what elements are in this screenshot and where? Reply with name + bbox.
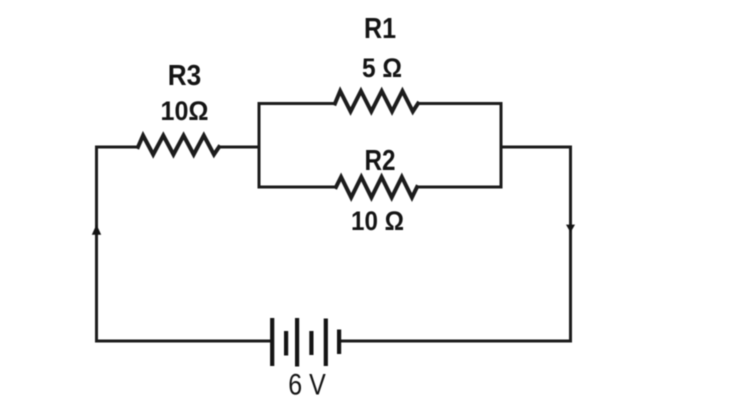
svg-text:R3: R3 (168, 60, 202, 92)
node A left side of parallel box (258, 104, 261, 188)
value label 5 Ω (362, 53, 402, 83)
battery plate short 3 (337, 330, 341, 355)
svg-text:10 Ω: 10 Ω (351, 206, 404, 236)
reference label R3 (168, 60, 202, 92)
battery BT1 (6 V, three cells) (272, 318, 339, 367)
wire top-left horizontal (97, 146, 139, 149)
value label 6 V (288, 369, 326, 402)
current arrow right (downward) (566, 225, 575, 233)
wire top branch left (259, 102, 335, 105)
resistor R1 (335, 91, 418, 112)
svg-text:10Ω: 10Ω (161, 96, 209, 126)
reference label R2 (365, 145, 396, 177)
value label 10Ω (161, 96, 209, 126)
battery plate short 2 (309, 331, 313, 355)
svg-text:R2: R2 (365, 145, 396, 177)
resistor R3 (138, 136, 219, 155)
svg-text:R1: R1 (364, 13, 396, 45)
svg-text:5 Ω: 5 Ω (362, 53, 402, 83)
battery plate short 1 (284, 331, 288, 356)
current arrow left (upward) (92, 225, 101, 235)
svg-text:6 V: 6 V (288, 369, 326, 402)
battery plate long 3 (324, 319, 328, 367)
wire bottom left (97, 340, 273, 343)
wire bottom branch right (417, 186, 501, 189)
wire left vertical (95, 147, 98, 341)
value label 10 Ω (351, 206, 404, 236)
reference label R1 (364, 13, 396, 45)
wire R3 to node A (219, 146, 259, 149)
wire bottom branch left (259, 186, 336, 189)
battery plate long 1 (270, 318, 274, 366)
wire top branch right (418, 102, 501, 105)
node B right side of parallel box (500, 104, 503, 188)
wire node B to right (501, 146, 571, 149)
wire bottom right (340, 340, 571, 343)
wire right vertical (569, 147, 572, 341)
battery plate long 2 (295, 318, 299, 367)
resistor R2 (336, 177, 417, 198)
